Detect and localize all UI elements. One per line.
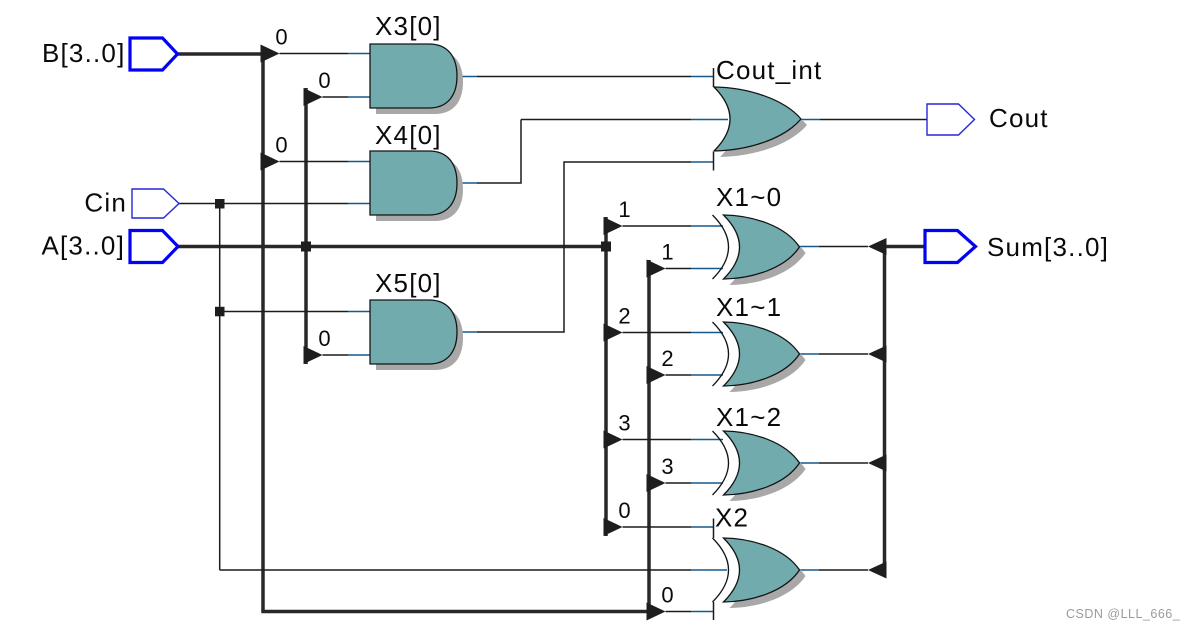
svg-text:2: 2 bbox=[661, 346, 673, 371]
pin stub X2 bottom bbox=[713, 602, 715, 620]
wire B bus horizontal from port bbox=[177, 52, 264, 56]
input port B[3..0] bbox=[130, 38, 178, 70]
AND gate X3[0] bbox=[370, 44, 463, 114]
input port A[3..0] bbox=[130, 231, 178, 263]
svg-text:X2: X2 bbox=[715, 503, 749, 533]
bus tap B2 to X1~1 bottom bbox=[647, 366, 666, 384]
bus tap A0 to X5 bottom bbox=[304, 346, 323, 364]
XOR gate X1~0 bbox=[713, 215, 806, 285]
svg-text:1: 1 bbox=[618, 197, 630, 222]
output port Cout bbox=[927, 104, 975, 135]
svg-text:0: 0 bbox=[275, 25, 287, 50]
svg-text:X5[0]: X5[0] bbox=[375, 268, 442, 298]
wire A3 to X1~2 bbox=[623, 439, 692, 441]
wire Cin branch to X5 top bbox=[220, 311, 348, 313]
input port Cin bbox=[132, 189, 179, 218]
XOR gate X1~2 bbox=[713, 431, 806, 501]
wire B bus branch vertical bbox=[647, 260, 651, 612]
svg-text:2: 2 bbox=[618, 304, 630, 329]
wire Cin horizontal to X4 bbox=[179, 203, 348, 205]
wire B0 to X4 top input bbox=[280, 161, 349, 163]
wire B bus bottom horizontal bbox=[261, 610, 650, 614]
wire Sum bus bbox=[885, 247, 926, 571]
pin stub OR top bbox=[713, 68, 715, 87]
bus tap B3 to X1~2 bottom bbox=[647, 474, 666, 492]
svg-text:0: 0 bbox=[618, 498, 630, 523]
wire A0 to X2 top pin bbox=[623, 526, 692, 528]
junction Cin branch X5 row bbox=[215, 307, 225, 317]
svg-text:3: 3 bbox=[618, 411, 630, 436]
wire X1~1 output bbox=[800, 353, 820, 355]
svg-text:3: 3 bbox=[661, 454, 673, 479]
bus tap B1 to X1~0 bottom bbox=[647, 260, 666, 278]
svg-text:X1~1: X1~1 bbox=[716, 292, 782, 322]
wire OR output to Cout bbox=[801, 119, 820, 121]
wire A2 to X1~1 bbox=[623, 332, 692, 334]
svg-text:0: 0 bbox=[275, 133, 287, 158]
bus tap B0 to X4 top bbox=[261, 153, 280, 171]
pin stub OR bottom bbox=[713, 152, 715, 171]
svg-text:A[3..0]: A[3..0] bbox=[41, 231, 125, 261]
wire B0 to X2 bottom pin bbox=[666, 611, 692, 613]
XOR gate X2 bbox=[713, 538, 806, 608]
wire A bus horizontal from port bbox=[178, 245, 606, 249]
svg-text:0: 0 bbox=[318, 326, 330, 351]
wire X1~0 output bbox=[800, 246, 820, 248]
wire B bus vertical bbox=[261, 52, 265, 611]
wire X5 output bbox=[457, 331, 477, 333]
svg-text:Cout: Cout bbox=[989, 103, 1049, 133]
wire X1~2 output bbox=[800, 462, 820, 464]
pin stub X2 top bbox=[713, 519, 715, 539]
bus tap A2 to X1~1 top bbox=[604, 324, 623, 342]
OR gate Cout_int bbox=[714, 87, 807, 157]
svg-text:X3[0]: X3[0] bbox=[375, 11, 442, 41]
bus tap B0 to X3 top bbox=[261, 45, 280, 63]
bus tap A3 to X1~2 top bbox=[604, 431, 623, 449]
wire A1 to X1~0 bbox=[623, 225, 692, 227]
wire B3 to X1~2 bbox=[666, 482, 692, 484]
svg-text:0: 0 bbox=[318, 68, 330, 93]
wire X2 output bbox=[800, 569, 820, 571]
svg-text:X4[0]: X4[0] bbox=[375, 120, 442, 150]
bus tap A0 to X3 bottom bbox=[304, 88, 323, 106]
merge tap Sum bit0 bbox=[868, 562, 887, 579]
junction A bus left branch bbox=[301, 242, 311, 252]
merge tap Sum bit2 bbox=[868, 346, 887, 363]
output port Sum[3..0] bbox=[925, 231, 976, 263]
wire X4 output bbox=[457, 182, 477, 184]
wire X3 output to OR top pin bbox=[457, 76, 477, 78]
svg-text:Cin: Cin bbox=[84, 188, 127, 218]
wire Cin branch to X2 middle bbox=[220, 569, 691, 571]
svg-text:Cout_int: Cout_int bbox=[716, 55, 822, 85]
junction Cin x A row bbox=[215, 199, 225, 209]
wire A0 to X5 bottom input bbox=[323, 354, 349, 356]
wire A bus branch vertical left bbox=[304, 88, 308, 364]
wire B2 to X1~1 bbox=[666, 374, 692, 376]
wire B0 to X3 top input bbox=[280, 53, 349, 55]
AND gate X4[0] bbox=[370, 151, 463, 221]
XOR gate X1~1 bbox=[713, 322, 806, 392]
bus tap A1 to X1~0 top bbox=[604, 217, 623, 235]
svg-text:B[3..0]: B[3..0] bbox=[42, 38, 126, 68]
svg-text:X1~0: X1~0 bbox=[716, 182, 782, 212]
wire A bus branch vertical right bbox=[604, 217, 608, 536]
junction A bus right branch bbox=[601, 242, 611, 252]
wire B1 to X1~0 bbox=[666, 268, 692, 270]
merge tap Sum bit1 bbox=[868, 238, 887, 255]
svg-text:0: 0 bbox=[661, 583, 673, 608]
bus tap A0 to X2 top bbox=[604, 518, 623, 536]
bus tap B0 to X2 bottom bbox=[647, 603, 666, 621]
svg-text:X1~2: X1~2 bbox=[716, 402, 782, 432]
svg-text:Sum[3..0]: Sum[3..0] bbox=[987, 232, 1109, 262]
merge tap Sum bit3 bbox=[868, 455, 887, 472]
wire A0 to X3 bottom input bbox=[323, 96, 349, 98]
AND gate X5[0] bbox=[370, 300, 463, 370]
svg-text:CSDN @LLL_666_: CSDN @LLL_666_ bbox=[1066, 607, 1181, 621]
wire Cin vertical drop bbox=[219, 204, 221, 571]
svg-text:1: 1 bbox=[661, 240, 673, 265]
